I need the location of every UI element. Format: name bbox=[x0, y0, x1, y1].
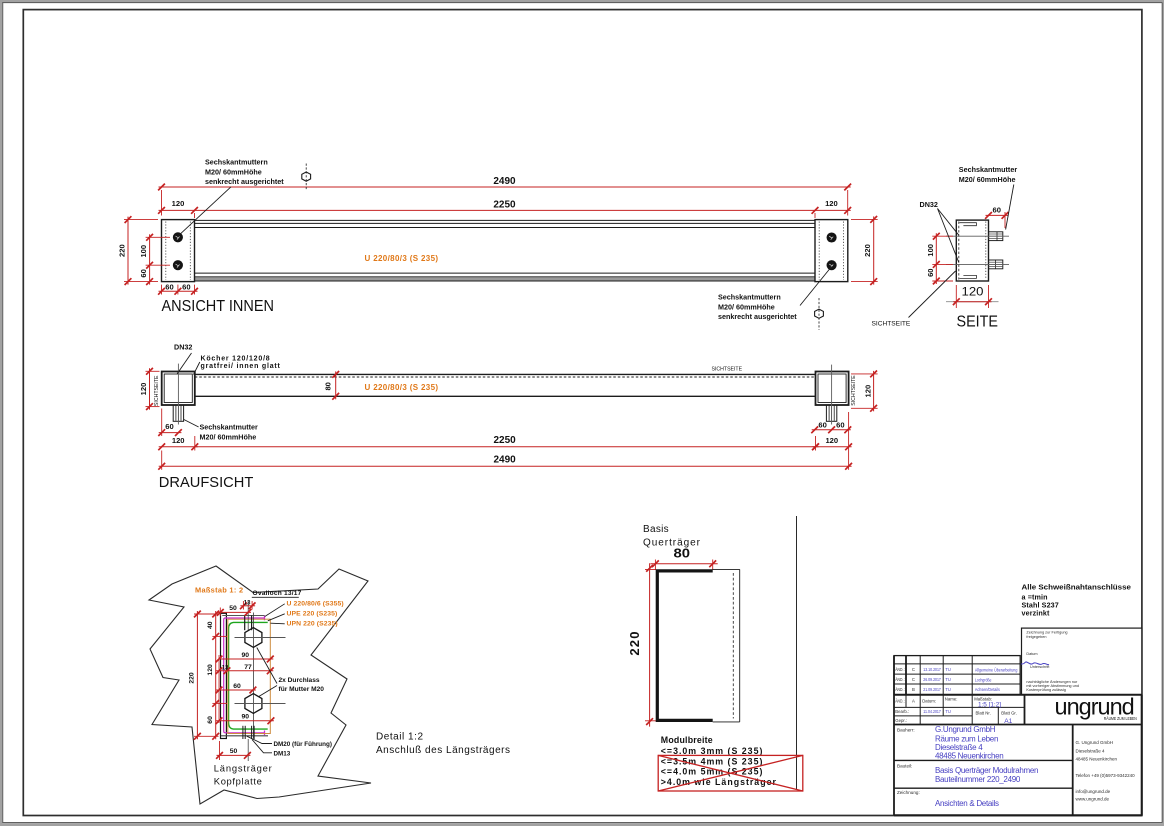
address column bbox=[1076, 740, 1136, 802]
svg-text:Sechskantmuttern: Sechskantmuttern bbox=[718, 293, 781, 302]
svg-text:Datum:: Datum: bbox=[922, 699, 936, 704]
dimension 90 upper bbox=[216, 652, 274, 662]
dimension 2490 bottom bbox=[158, 412, 852, 470]
svg-text:Telefon +49 (0)5973-9342240: Telefon +49 (0)5973-9342240 bbox=[1076, 773, 1136, 778]
svg-text:ANSICHT INNEN: ANSICHT INNEN bbox=[162, 298, 275, 315]
svg-text:90: 90 bbox=[242, 652, 250, 659]
right bolt stud bbox=[826, 405, 836, 421]
svg-text:www.ungrund.de: www.ungrund.de bbox=[1076, 797, 1110, 802]
svg-text:DN32: DN32 bbox=[920, 200, 938, 209]
thin profile extension bbox=[713, 569, 740, 722]
svg-text:verzinkt: verzinkt bbox=[1022, 608, 1050, 617]
label Sechskantmutter top bbox=[959, 165, 1018, 230]
weld note bbox=[1022, 583, 1132, 618]
svg-text:60: 60 bbox=[926, 268, 935, 276]
beam body lines bbox=[195, 220, 816, 281]
svg-text:26.09.2017: 26.09.2017 bbox=[923, 677, 941, 682]
svg-text:A: A bbox=[912, 699, 915, 704]
svg-text:40: 40 bbox=[207, 621, 214, 629]
svg-text:100: 100 bbox=[926, 244, 935, 257]
title block main borders bbox=[894, 656, 1142, 816]
scale and sheet cells bbox=[895, 696, 1017, 725]
dimension 60 60 bottom left bbox=[158, 283, 198, 295]
svg-text:G.Ungrund GmbH: G.Ungrund GmbH bbox=[935, 725, 996, 734]
svg-text:Name:: Name: bbox=[945, 697, 958, 702]
svg-text:gratfrei/ innen glatt: gratfrei/ innen glatt bbox=[201, 363, 281, 370]
svg-text:ÄND. :: ÄND. : bbox=[895, 677, 905, 682]
upper hex nut M20 bbox=[235, 628, 286, 648]
svg-text:Sechskantmutter: Sechskantmutter bbox=[959, 165, 1018, 174]
svg-text:Ansichten & Details: Ansichten & Details bbox=[935, 799, 999, 808]
svg-text:Zeichnung:: Zeichnung: bbox=[897, 790, 920, 795]
dimension 220 detail bbox=[188, 611, 218, 740]
drawing info bbox=[897, 790, 999, 808]
label DN32 bbox=[920, 200, 959, 262]
svg-text:Köcher 120/120/8: Köcher 120/120/8 bbox=[201, 355, 271, 362]
bolts (nuts) left plate bbox=[173, 232, 183, 270]
right bolt centerline bbox=[831, 365, 833, 425]
side plate bbox=[956, 220, 988, 281]
svg-text:A1: A1 bbox=[1004, 718, 1012, 725]
svg-text:120: 120 bbox=[863, 385, 872, 398]
dimension 40/120/60 detail bbox=[207, 611, 227, 740]
svg-text:60: 60 bbox=[182, 283, 190, 292]
ungrund logo bbox=[1055, 694, 1137, 721]
svg-text:Detail 1:2: Detail 1:2 bbox=[376, 732, 423, 743]
label SICHTSEITE with leader bbox=[872, 271, 956, 328]
svg-text:220: 220 bbox=[627, 630, 642, 655]
svg-text:60: 60 bbox=[233, 683, 241, 690]
svg-text:Blatt Gr.: Blatt Gr. bbox=[1001, 711, 1017, 716]
svg-text:M20/ 60mmHöhe: M20/ 60mmHöhe bbox=[718, 302, 775, 311]
svg-text:DN32: DN32 bbox=[174, 343, 192, 352]
svg-text:TU: TU bbox=[945, 687, 951, 692]
svg-text:120: 120 bbox=[825, 436, 838, 445]
svg-text:TU: TU bbox=[945, 709, 951, 714]
svg-text:Ovalloch 13/17: Ovalloch 13/17 bbox=[253, 590, 302, 597]
svg-text:Lochgröße: Lochgröße bbox=[975, 677, 992, 682]
svg-text:21.09.2017: 21.09.2017 bbox=[923, 687, 941, 692]
svg-text:Maßstab:: Maßstab: bbox=[974, 696, 992, 701]
svg-text:Achsen/Details: Achsen/Details bbox=[975, 687, 1000, 692]
svg-text:60: 60 bbox=[818, 421, 826, 430]
freigegeben box bbox=[1016, 628, 1142, 695]
VIEW: SEITE bbox=[872, 165, 1018, 331]
dimension 220 left bbox=[118, 216, 158, 285]
svg-text:TU: TU bbox=[945, 667, 951, 672]
svg-text:Querträger: Querträger bbox=[643, 537, 701, 548]
upper bolt bbox=[989, 232, 1003, 241]
svg-text:SICHTSEITE: SICHTSEITE bbox=[851, 375, 857, 406]
svg-text:info@ungrund.de: info@ungrund.de bbox=[1076, 789, 1111, 794]
svg-text:77: 77 bbox=[244, 664, 252, 671]
dimension 13 slot top bbox=[240, 600, 256, 609]
svg-text:Alle Schweißnahtanschlüsse: Alle Schweißnahtanschlüsse bbox=[1022, 583, 1132, 592]
svg-text:Allgemeine Überarbeitung: Allgemeine Überarbeitung bbox=[975, 667, 1018, 672]
svg-text:2490: 2490 bbox=[493, 455, 516, 466]
orange label UPE 220 with leader bbox=[268, 610, 338, 620]
svg-text:senkrecht ausgerichtet: senkrecht ausgerichtet bbox=[205, 177, 284, 186]
dimension 60 60 right bbox=[811, 421, 851, 434]
svg-text:60: 60 bbox=[139, 269, 148, 277]
magenta U 220/80/6 profile bbox=[224, 616, 265, 735]
bolts (nuts) right plate bbox=[827, 232, 837, 270]
label Sechskantmuttern right bbox=[718, 267, 832, 322]
label DM13 with leader bbox=[252, 740, 291, 758]
dimension 90 lower bbox=[216, 714, 275, 725]
dimension 2250 bbox=[195, 435, 819, 450]
svg-text:220: 220 bbox=[863, 244, 872, 257]
svg-text:Längsträger: Längsträger bbox=[214, 762, 272, 773]
svg-text:Sechskantmuttern: Sechskantmuttern bbox=[205, 158, 268, 167]
svg-text:Anschluß des Längsträgers: Anschluß des Längsträgers bbox=[376, 745, 510, 756]
svg-text:Datum: Datum bbox=[1026, 652, 1037, 656]
svg-text:60: 60 bbox=[165, 422, 173, 431]
dimension 60 left bbox=[158, 409, 182, 437]
C profile thick bbox=[657, 571, 712, 721]
dimension 2490 top bbox=[158, 176, 851, 216]
svg-text:120: 120 bbox=[172, 436, 185, 445]
svg-text:2x Durchlass: 2x Durchlass bbox=[279, 677, 320, 684]
svg-text:Bearb.:: Bearb.: bbox=[895, 709, 909, 714]
svg-text:für Mutter M20: für Mutter M20 bbox=[279, 686, 325, 693]
svg-text:Dieselstraße 4: Dieselstraße 4 bbox=[1076, 748, 1106, 753]
label Sechskantmutter bottom bbox=[184, 419, 258, 441]
svg-text:Gepr.:: Gepr.: bbox=[895, 718, 907, 723]
label Ovalloch 13/17 underlined bbox=[252, 590, 302, 597]
svg-text:13: 13 bbox=[222, 665, 229, 671]
dimension 100 / 60 side bbox=[926, 233, 953, 285]
left bolt stud bbox=[173, 405, 183, 421]
svg-text:TU: TU bbox=[945, 677, 951, 682]
dimension 60 bbox=[216, 683, 257, 694]
svg-text:Sechskantmutter: Sechskantmutter bbox=[200, 423, 259, 432]
green UPE 220 profile bbox=[229, 622, 268, 729]
svg-text:60: 60 bbox=[165, 283, 173, 292]
svg-text:13: 13 bbox=[244, 600, 251, 606]
svg-text:RÄUME ZUM LEBEN: RÄUME ZUM LEBEN bbox=[1104, 716, 1137, 721]
svg-text:120: 120 bbox=[962, 284, 984, 298]
dimension 50 bottom bbox=[216, 741, 251, 760]
svg-text:SICHTSEITE: SICHTSEITE bbox=[154, 375, 160, 406]
label Basis Quertraeger bbox=[643, 524, 701, 549]
svg-text:U 220/80/6 (S355): U 220/80/6 (S355) bbox=[287, 600, 344, 607]
svg-text:Kopfplatte: Kopfplatte bbox=[214, 776, 262, 787]
svg-text:48485 Neuenkirchen: 48485 Neuenkirchen bbox=[1076, 756, 1118, 761]
svg-text:2490: 2490 bbox=[493, 176, 516, 187]
svg-text:60: 60 bbox=[207, 716, 214, 724]
svg-text:50: 50 bbox=[229, 605, 237, 612]
svg-text:UPN 220 (S235): UPN 220 (S235) bbox=[287, 621, 338, 628]
svg-text:220: 220 bbox=[188, 672, 195, 684]
svg-text:120: 120 bbox=[207, 664, 214, 676]
svg-text:DRAUFSICHT: DRAUFSICHT bbox=[159, 474, 254, 491]
part info bbox=[897, 763, 1038, 784]
dimension 60 bolt length bbox=[985, 205, 1008, 228]
revision table bbox=[894, 656, 1020, 695]
VIEW: DRAUFSICHT bbox=[139, 343, 878, 492]
svg-text:Unterschrift: Unterschrift bbox=[1030, 665, 1050, 669]
svg-text:<=3.0m 3mm (S 235): <=3.0m 3mm (S 235) bbox=[661, 746, 764, 756]
owner info bbox=[897, 725, 1003, 760]
Modulbreite table bbox=[661, 735, 777, 787]
svg-text:DM20 (für Führung): DM20 (für Führung) bbox=[274, 741, 332, 748]
dimension 100 / 60 left bbox=[139, 234, 170, 285]
hex nut center axis bbox=[252, 613, 254, 739]
svg-text:U 220/80/3 (S 235): U 220/80/3 (S 235) bbox=[365, 254, 439, 263]
svg-text:48485 Neuenkirchen: 48485 Neuenkirchen bbox=[935, 752, 1003, 761]
top flange dark edge bbox=[222, 615, 264, 617]
dimension 50 top bbox=[217, 605, 252, 616]
svg-text:Kostenprüfung zulässig: Kostenprüfung zulässig bbox=[1026, 688, 1065, 692]
dimension 13 / 77 bbox=[216, 664, 274, 674]
label Detail 1:2 bbox=[376, 732, 510, 756]
svg-text:80: 80 bbox=[323, 382, 332, 390]
VIEW: ANSICHT INNEN bbox=[118, 158, 878, 331]
label DN32 top bbox=[174, 343, 192, 375]
svg-text:Modulbreite: Modulbreite bbox=[661, 735, 713, 745]
svg-text:ÄND. :: ÄND. : bbox=[895, 699, 905, 704]
lower hex nut M20 bbox=[235, 694, 286, 714]
dimension 80 beam width bbox=[323, 371, 339, 400]
bottom flange dark edge bbox=[221, 735, 268, 737]
label Koecher bbox=[194, 355, 281, 374]
svg-text:M20/ 60mmHöhe: M20/ 60mmHöhe bbox=[205, 167, 262, 176]
svg-text:Basis Querträger Modulrahmen: Basis Querträger Modulrahmen bbox=[935, 766, 1038, 775]
svg-text:90: 90 bbox=[242, 714, 250, 721]
svg-text:Blatt Nr.: Blatt Nr. bbox=[976, 711, 991, 716]
svg-text:M20/ 60mmHöhe: M20/ 60mmHöhe bbox=[959, 175, 1016, 184]
TITLE BLOCK bbox=[894, 628, 1142, 815]
svg-text:freigegeben: freigegeben bbox=[1026, 635, 1046, 639]
dimension 120 left bbox=[158, 436, 198, 451]
svg-text:senkrecht ausgerichtet: senkrecht ausgerichtet bbox=[718, 312, 797, 321]
svg-text:U 220/80/3 (S 235): U 220/80/3 (S 235) bbox=[365, 383, 439, 392]
dimension 80 bbox=[650, 560, 717, 571]
channel section thin outline bbox=[959, 223, 976, 279]
beam top view lines bbox=[195, 374, 816, 396]
svg-text:SICHTSEITE: SICHTSEITE bbox=[712, 366, 743, 372]
right koecher square bbox=[816, 372, 849, 406]
dimension 120 right bbox=[812, 436, 852, 451]
left bolt centerline bbox=[177, 364, 179, 425]
DM hole ticks bottom flange bbox=[243, 726, 254, 739]
left koecher square bbox=[162, 372, 195, 406]
bolt centerlines bbox=[946, 236, 1009, 264]
svg-text:DM13: DM13 bbox=[274, 750, 291, 757]
dimension 120 vertical right bbox=[851, 371, 878, 412]
label Sechskantmuttern top left bbox=[178, 158, 284, 237]
VIEW: DETAIL 1:2 bbox=[149, 566, 510, 804]
svg-text:ÄND. :: ÄND. : bbox=[895, 687, 905, 692]
dimension 220 bbox=[645, 563, 656, 726]
svg-text:13.10.2017: 13.10.2017 bbox=[923, 667, 941, 672]
svg-text:1:5 [1:2]: 1:5 [1:2] bbox=[978, 702, 1001, 709]
dimension 220 right bbox=[851, 216, 878, 285]
orange label UPN 220 with leader bbox=[271, 621, 338, 628]
Ovalloch slot bbox=[245, 601, 252, 761]
svg-text:M20/ 60mmHöhe: M20/ 60mmHöhe bbox=[200, 432, 257, 441]
svg-text:>4.0m wie Längsträger: >4.0m wie Längsträger bbox=[661, 777, 777, 787]
svg-text:Basis: Basis bbox=[643, 524, 669, 535]
svg-text:UPE 220 (S235): UPE 220 (S235) bbox=[287, 610, 338, 617]
VIEW: BASIS QUERTRAEGER bbox=[627, 524, 803, 791]
label Laengstraeger Kopfplatte bbox=[214, 762, 272, 786]
svg-text:2250: 2250 bbox=[493, 199, 516, 210]
left end plate bbox=[162, 220, 195, 282]
svg-text:60: 60 bbox=[992, 205, 1000, 214]
dimension 2250 + 120/120 bbox=[158, 199, 851, 218]
hex symbol top left bbox=[302, 164, 311, 191]
svg-text:2250: 2250 bbox=[493, 435, 516, 446]
Kopfplatte plate bbox=[221, 613, 227, 738]
svg-text:C: C bbox=[912, 677, 915, 682]
label 2x Durchlass with leaders bbox=[257, 648, 324, 697]
svg-text:SEITE: SEITE bbox=[957, 314, 999, 331]
svg-text:Bauherr:: Bauherr: bbox=[897, 727, 915, 732]
svg-text:Maßstab 1: 2: Maßstab 1: 2 bbox=[195, 586, 243, 595]
red extension left face bbox=[218, 655, 220, 723]
red strike-out box bbox=[658, 755, 803, 791]
label DM20 with leader bbox=[247, 736, 332, 748]
svg-text:100: 100 bbox=[139, 245, 148, 258]
svg-text:C: C bbox=[912, 667, 915, 672]
svg-text:80: 80 bbox=[674, 547, 691, 561]
svg-text:50: 50 bbox=[230, 748, 238, 755]
hex symbol right bbox=[815, 298, 824, 330]
orange label U 220/80/6 with leader bbox=[265, 600, 344, 616]
dimension 120 side bottom bbox=[946, 284, 999, 308]
svg-text:60: 60 bbox=[836, 421, 844, 430]
svg-text:Bauteil:: Bauteil: bbox=[897, 763, 912, 768]
svg-text:120: 120 bbox=[139, 383, 148, 396]
dimension 120 vertical left bbox=[139, 368, 160, 410]
svg-text:SICHTSEITE: SICHTSEITE bbox=[872, 321, 911, 328]
svg-text:220: 220 bbox=[118, 244, 127, 257]
svg-text:Bauteilnummer 220_2490: Bauteilnummer 220_2490 bbox=[935, 775, 1021, 784]
svg-text:ÄND. :: ÄND. : bbox=[895, 667, 905, 672]
jagged break outline bbox=[149, 566, 371, 804]
right end plate bbox=[815, 220, 848, 282]
svg-text:120: 120 bbox=[825, 199, 838, 208]
svg-text:<=3.5m 4mm (S 235): <=3.5m 4mm (S 235) bbox=[661, 756, 764, 766]
lower bolt bbox=[989, 260, 1003, 269]
orange UPN 220 rectangle bbox=[228, 619, 270, 733]
svg-text:B: B bbox=[912, 687, 915, 692]
svg-text:11.04.2017: 11.04.2017 bbox=[923, 709, 941, 714]
svg-text:G. Ungrund GmbH: G. Ungrund GmbH bbox=[1076, 740, 1114, 745]
svg-text:120: 120 bbox=[172, 199, 185, 208]
divider line bbox=[796, 516, 798, 790]
